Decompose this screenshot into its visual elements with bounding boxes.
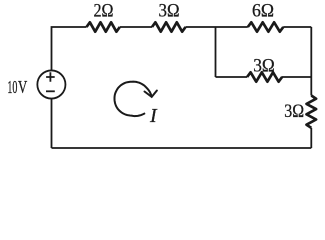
wire top-left from source to top-left corner and top wire to R1 xyxy=(52,27,87,71)
svg-text:I: I xyxy=(149,105,158,127)
resistor R1 2ohm xyxy=(87,22,120,31)
wire R2 to R3 xyxy=(186,26,248,28)
wire middle branch left xyxy=(216,76,248,78)
svg-text:2Ω: 2Ω xyxy=(94,1,114,22)
resistor R4 3ohm middle xyxy=(247,72,282,81)
wire right edge upper xyxy=(310,27,312,96)
wire right edge lower xyxy=(310,128,312,148)
minus sign xyxy=(46,90,55,92)
svg-text:10V: 10V xyxy=(7,77,27,97)
resistor R3 6ohm xyxy=(248,22,284,31)
arrowhead of current loop xyxy=(145,91,157,97)
svg-text:3Ω: 3Ω xyxy=(284,101,304,122)
svg-text:3Ω: 3Ω xyxy=(253,55,275,76)
wire R3 to top-right corner xyxy=(283,26,311,28)
resistor R2 3ohm top xyxy=(152,22,186,31)
wire bottom xyxy=(52,147,312,149)
svg-text:6Ω: 6Ω xyxy=(252,0,274,21)
wire junction vertical at node A xyxy=(215,27,217,77)
svg-text:3Ω: 3Ω xyxy=(159,0,180,21)
plus sign xyxy=(46,72,55,82)
resistor R5 3ohm vertical xyxy=(306,96,316,128)
current loop arc xyxy=(115,82,152,117)
wire between R1 and R2 xyxy=(120,26,152,28)
wire middle branch right xyxy=(282,76,312,78)
voltage source V1 circle xyxy=(37,70,65,98)
wire left lower xyxy=(51,99,53,148)
